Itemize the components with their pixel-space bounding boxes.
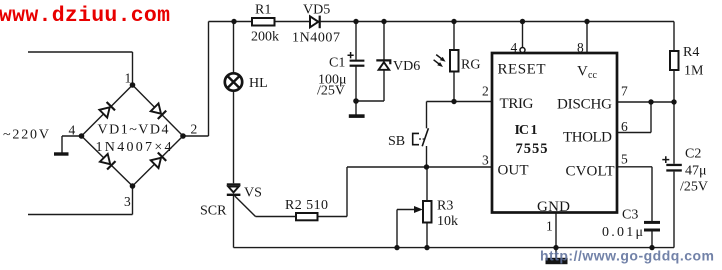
wire pin 5 to C3 <box>617 167 652 248</box>
bridge edge 3-2 <box>133 136 184 186</box>
lamp HL <box>225 73 242 90</box>
bridge diode VD (bottom-right, pointing to node 2) <box>151 158 161 168</box>
svg-text:V: V <box>577 64 588 80</box>
wire SB vertical lower <box>426 146 428 167</box>
ground bar below pin 1 <box>546 258 568 264</box>
node top-pin8 <box>584 19 589 24</box>
pin 4 reset bubble <box>520 48 525 53</box>
svg-text:/25V: /25V <box>317 84 345 99</box>
node pin7-R4 <box>671 99 676 104</box>
ground bar below C1 <box>349 114 365 118</box>
resistor R2 <box>296 213 318 220</box>
svg-text:GND: GND <box>537 199 570 215</box>
pushbutton SB dashed link <box>419 138 425 140</box>
wire R2 row <box>256 167 348 217</box>
capacitor C1 <box>350 60 365 62</box>
svg-text:www.dziuu.com: www.dziuu.com <box>0 4 170 28</box>
capacitor C3 <box>644 221 660 224</box>
wire pin 6 link <box>617 102 651 133</box>
svg-text:R1: R1 <box>255 3 271 18</box>
svg-text:cc: cc <box>588 70 597 81</box>
wire VD6 branch <box>383 22 385 102</box>
svg-text:C3: C3 <box>622 208 638 223</box>
svg-text:THOLD: THOLD <box>563 130 612 146</box>
svg-text:8: 8 <box>577 40 584 55</box>
svg-text:7: 7 <box>621 84 628 99</box>
bridge edge 4-3 <box>82 136 133 186</box>
node C3 bottom <box>649 245 654 250</box>
wire SCR gate diagonal <box>235 196 256 217</box>
svg-text:VD1~VD4: VD1~VD4 <box>98 123 169 138</box>
wire pin 8 drop <box>586 22 588 54</box>
svg-text:SCR: SCR <box>200 204 227 219</box>
svg-text:0.01μ: 0.01μ <box>602 225 643 240</box>
svg-text:2: 2 <box>482 84 489 99</box>
svg-text:RESET: RESET <box>498 62 546 78</box>
bridge diode VD (top-right, pointing to node 2) <box>151 103 161 113</box>
wire node 3 to lower AC lead <box>28 186 133 215</box>
svg-text:R2 510: R2 510 <box>285 198 328 213</box>
light arrows at RG <box>436 55 443 60</box>
resistor R1 <box>252 18 275 26</box>
svg-text:R4: R4 <box>683 45 699 60</box>
node top-HL <box>231 19 236 24</box>
svg-text:VD5: VD5 <box>303 3 330 18</box>
svg-text:6: 6 <box>621 119 628 134</box>
svg-text:C2: C2 <box>685 147 701 162</box>
svg-text:RG: RG <box>461 58 480 73</box>
svg-text:VD6: VD6 <box>393 59 420 74</box>
node R3 wiper bottom <box>394 245 399 250</box>
svg-text:OUT: OUT <box>498 163 529 179</box>
svg-text:TRIG: TRIG <box>500 96 534 112</box>
node 1 <box>130 82 136 88</box>
node R3 bottom <box>424 245 429 250</box>
svg-text:3: 3 <box>482 153 489 168</box>
svg-text:SB: SB <box>388 134 405 149</box>
bridge diode VD (top-left, pointing to node 1) <box>99 107 109 117</box>
svg-text:4: 4 <box>511 40 518 55</box>
node RG-TRIG <box>451 99 456 104</box>
svg-text:7555: 7555 <box>516 141 548 157</box>
svg-text:HL: HL <box>249 76 268 91</box>
wire pin 4 drop <box>522 22 524 48</box>
photoresistor RG <box>450 50 459 72</box>
svg-text:IC 1: IC 1 <box>515 123 538 138</box>
node GND bottom <box>553 245 558 250</box>
node top-RG <box>451 19 456 24</box>
node 4 <box>79 133 85 139</box>
terminal bar at node 4 lead <box>54 152 69 155</box>
svg-text:http://www.go-gddq.com: http://www.go-gddq.com <box>540 248 714 264</box>
svg-text:1: 1 <box>125 71 132 86</box>
potentiometer R3 <box>423 201 432 223</box>
svg-text:4: 4 <box>69 123 76 138</box>
pushbutton SB bracket <box>413 133 419 144</box>
wire pin 1 GND drop <box>555 213 557 259</box>
svg-text:5: 5 <box>621 152 628 167</box>
svg-text:~220V: ~220V <box>3 128 49 143</box>
svg-text:C1: C1 <box>329 56 345 71</box>
wire RG branch <box>453 22 455 102</box>
node top-C1 <box>353 19 358 24</box>
svg-text:VS: VS <box>244 186 262 201</box>
svg-text:2: 2 <box>191 122 198 137</box>
ground stub below C1 <box>355 101 357 115</box>
node pin6-pin7 <box>648 99 653 104</box>
wire pin 7 row <box>617 101 674 103</box>
wire top rail <box>209 21 675 23</box>
wire right rail R4/C2 <box>673 22 675 248</box>
zener VD6 <box>379 62 390 70</box>
svg-text:/25V: /25V <box>680 180 708 195</box>
svg-text:200k: 200k <box>251 30 279 45</box>
svg-text:3: 3 <box>124 194 131 209</box>
svg-text:1N4007×4: 1N4007×4 <box>96 140 172 155</box>
wire C1 to VD6 link <box>356 100 384 102</box>
arrowhead R3 wiper <box>414 206 423 213</box>
svg-text:DISCHG: DISCHG <box>557 97 612 113</box>
node 3 <box>130 183 136 189</box>
wire HL to SCR <box>233 90 235 183</box>
svg-text:1N4007: 1N4007 <box>292 31 340 46</box>
wire SB vertical upper <box>426 102 428 129</box>
wire R3 branch <box>426 167 428 248</box>
wire SCR cathode to bottom rail <box>233 196 235 248</box>
wire TRIG row pin 2 <box>427 101 493 103</box>
svg-text:1: 1 <box>546 219 553 234</box>
wire node 1 to left AC lead <box>28 52 133 85</box>
wire bottom rail <box>234 247 675 249</box>
wire node 4 elbow to terminal <box>62 136 82 153</box>
plus sign C2 <box>662 156 669 163</box>
capacitor C2 <box>666 164 682 166</box>
svg-text:10k: 10k <box>437 214 458 229</box>
wire C1 branch <box>355 22 357 102</box>
thyristor VS <box>227 183 241 185</box>
node SB-OUT <box>424 164 429 169</box>
node C1-VD6 <box>353 98 359 104</box>
node top-pin4 <box>520 19 525 24</box>
wire OUT row pin 3 <box>347 166 492 168</box>
svg-text:R3: R3 <box>437 199 453 214</box>
node 2 <box>180 133 186 139</box>
svg-text:1M: 1M <box>684 64 704 79</box>
node top-VD6 <box>381 19 386 24</box>
svg-text:47μ: 47μ <box>685 164 707 179</box>
resistor R4 <box>670 51 679 70</box>
bridge edge 1-2 <box>133 85 184 136</box>
wire R3 wiper <box>397 210 420 248</box>
pushbutton SB lever <box>422 128 428 146</box>
bridge diode VD (bottom-left, pointing to node 3) <box>100 154 110 164</box>
svg-text:CVOLT: CVOLT <box>566 164 615 180</box>
wire left elbow from node 2 <box>183 22 209 137</box>
IC U1 box 7555 <box>492 53 617 213</box>
wire HL branch upper <box>233 22 235 74</box>
diode VD5 <box>310 16 318 27</box>
plus sign C1 <box>348 52 354 58</box>
bridge edge 4-1 <box>82 85 133 136</box>
